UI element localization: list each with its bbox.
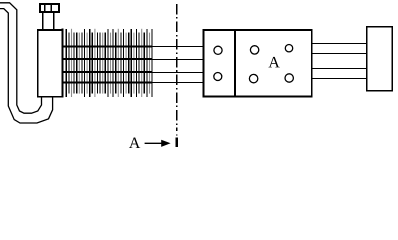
right end block — [367, 27, 393, 91]
wire: cooling tube inner line (lower-left inlet, left vertical, outer U-bend) — [0, 9, 53, 123]
hole 6 (right cell bottom-right) — [285, 74, 293, 82]
block: die/clamp plate outer rectangle — [204, 30, 312, 97]
fins (heat-exchanger comb) — [66, 29, 152, 97]
right rod line 3 — [312, 68, 367, 70]
rod 2 — [63, 58, 204, 60]
hole 1 (left cell top) — [214, 46, 222, 54]
rod 3 thick segment within fins — [63, 71, 152, 73]
rod 4 — [63, 82, 204, 84]
bolt head — [40, 4, 59, 12]
rod 4 thick segment within fins — [63, 82, 152, 84]
body: condenser vessel rectangle — [38, 4, 204, 147]
rod 2 thick segment within fins — [63, 58, 152, 60]
body right edge (thick) — [62, 29, 64, 98]
hole 4 (right cell top-right) — [285, 45, 292, 52]
rod 1 (left shaft line) — [63, 46, 204, 48]
hole 5 (right cell bottom-left) — [249, 74, 257, 82]
bolt head divider 1 — [44, 4, 46, 12]
label A (in block) — [268, 57, 279, 68]
bolt stem — [42, 12, 44, 30]
section line dot below — [176, 134, 178, 135]
hole 3 (right cell top-left) — [250, 46, 258, 54]
right rod line 1 — [312, 43, 367, 45]
rod 3 — [63, 71, 204, 73]
block divider — [234, 30, 236, 97]
section line bottom thick dash — [176, 137, 179, 147]
right rod line 4 — [312, 77, 367, 79]
hole 2 (left cell bottom) — [214, 73, 222, 81]
bolt head divider 2 — [50, 4, 52, 12]
right rod line 2 — [312, 53, 367, 55]
wire: cooling tube outer line (top-left inlet, right vertical, inner U-bend) — [0, 3, 42, 113]
arrow head — [161, 140, 170, 147]
arrow shaft to section line — [145, 142, 162, 144]
section line A-A (dash-dot) — [176, 4, 178, 131]
label A (bottom) — [129, 137, 140, 148]
rod 1 thick segment within fins — [63, 46, 152, 48]
